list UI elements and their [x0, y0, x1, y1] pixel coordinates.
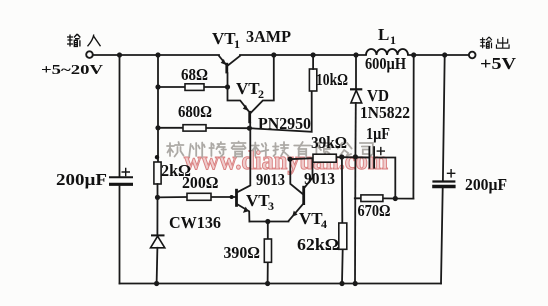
label VT4	[299, 209, 327, 231]
svg-text:10kΩ: 10kΩ	[316, 70, 348, 89]
svg-text:680Ω: 680Ω	[178, 102, 212, 121]
node bottom CW136	[154, 281, 159, 286]
node VT1 base junction	[225, 84, 230, 89]
input terminal	[86, 51, 93, 58]
node emitter bus	[265, 219, 270, 224]
label 680ohm	[178, 102, 212, 121]
node stray on vertical	[155, 155, 159, 159]
svg-text:9013: 9013	[304, 169, 335, 188]
label 600uH	[365, 54, 406, 73]
svg-text:200µF: 200µF	[56, 170, 107, 189]
output terminal	[469, 52, 476, 59]
inductor L1	[356, 49, 414, 55]
node 670 junction	[393, 196, 398, 201]
svg-text:9013: 9013	[256, 170, 285, 189]
node top rail second	[155, 52, 160, 57]
svg-text:390Ω: 390Ω	[224, 243, 261, 262]
label PN2950	[258, 114, 311, 133]
label 1uF	[366, 124, 390, 143]
svg-text:+5V: +5V	[480, 54, 516, 73]
node bottom 62k	[339, 281, 344, 286]
node 10k top	[311, 52, 316, 57]
label 200ohm	[182, 173, 219, 192]
svg-text:68Ω: 68Ω	[181, 65, 208, 84]
transistor VT1	[219, 56, 240, 87]
svg-text:200Ω: 200Ω	[182, 173, 219, 192]
svg-text:39kΩ: 39kΩ	[311, 133, 347, 152]
node VT2 collector rail	[271, 52, 276, 57]
label 68ohm	[181, 65, 208, 84]
svg-text:VT: VT	[299, 209, 323, 228]
svg-text:3: 3	[268, 199, 274, 213]
wire left rail upper	[119, 55, 121, 176]
wire VD line to ground	[354, 157, 356, 284]
label +5~20V	[41, 63, 103, 78]
label 670ohm	[358, 201, 391, 220]
label 9013 second	[304, 169, 335, 188]
node VT2 base junction	[247, 126, 252, 131]
wire bottom rail	[120, 283, 442, 285]
label CW136	[169, 213, 221, 232]
label 200uF right	[465, 175, 507, 194]
svg-text:+5~20V: +5~20V	[41, 63, 103, 78]
capacitor 1uF	[355, 146, 395, 198]
wire emitter bus	[249, 221, 288, 223]
label 3AMP	[246, 27, 291, 46]
label VT3	[246, 191, 274, 213]
svg-text:200µF: 200µF	[465, 175, 507, 194]
diode VD 1N5822	[350, 55, 362, 157]
wire left rail lower	[119, 186, 121, 284]
resistor 200ohm	[158, 193, 236, 200]
wire top rail middle section	[240, 54, 356, 56]
svg-text:1: 1	[234, 37, 240, 51]
svg-text:CW136: CW136	[169, 213, 221, 232]
label +5V	[480, 54, 516, 73]
node bottom VD line	[353, 281, 358, 286]
resistor 68ohm	[158, 84, 228, 91]
label 62k	[297, 235, 339, 254]
node top rail left	[117, 52, 122, 57]
node reference	[155, 195, 160, 200]
label 2k	[161, 161, 191, 180]
svg-text:1N5822: 1N5822	[360, 103, 410, 122]
node VD switch rail	[353, 52, 358, 57]
label 200uF left	[56, 170, 107, 189]
resistor 390ohm	[264, 222, 271, 284]
wire top rail output section	[414, 54, 469, 56]
svg-text:VT: VT	[236, 79, 260, 98]
resistor 670ohm	[355, 195, 414, 202]
node L1 right	[411, 52, 416, 57]
wire output branch vertical	[412, 55, 414, 199]
svg-text:2: 2	[258, 87, 264, 101]
svg-text:670Ω: 670Ω	[358, 201, 391, 220]
wire second vertical upper	[157, 55, 159, 162]
svg-text:1: 1	[390, 33, 396, 47]
svg-text:62kΩ: 62kΩ	[297, 235, 339, 254]
capacitor C1 200uF plates	[109, 168, 133, 185]
wire top rail input section	[93, 54, 219, 56]
node VT4 base junction	[287, 157, 292, 162]
node output cap	[442, 52, 447, 57]
svg-text:1µF: 1µF	[366, 124, 390, 143]
node VD line row	[353, 154, 358, 159]
transistor VT3	[237, 128, 251, 221]
svg-text:4: 4	[321, 217, 327, 231]
node bottom 390	[265, 281, 270, 286]
svg-text:VT: VT	[212, 29, 236, 48]
label VD	[367, 86, 389, 105]
node VT3 base	[230, 195, 234, 199]
svg-text:L: L	[378, 25, 389, 44]
label VT1	[212, 29, 240, 51]
watermark red url	[184, 146, 388, 175]
node 62k top	[339, 154, 344, 159]
label 390ohm	[224, 243, 261, 262]
svg-text:600µH: 600µH	[365, 54, 406, 73]
label input chinese	[67, 34, 101, 47]
svg-text:3AMP: 3AMP	[246, 27, 291, 46]
label 10k	[316, 70, 348, 89]
label 9013 first	[256, 170, 285, 189]
resistor 2k	[154, 162, 161, 197]
resistor 10k	[309, 55, 316, 91]
resistor 62k	[339, 157, 347, 284]
node 68ohm junction	[155, 84, 160, 89]
svg-text:www.dianyuan.com: www.dianyuan.com	[184, 146, 388, 175]
label output chinese	[480, 37, 509, 48]
transistor VT2	[228, 55, 274, 128]
label VT2	[236, 79, 264, 101]
resistor 680ohm	[158, 125, 249, 131]
zener CW136	[151, 197, 165, 283]
watermark gray company text	[167, 142, 373, 158]
label 1N5822	[360, 103, 410, 122]
svg-text:VT: VT	[246, 191, 270, 210]
label L1	[378, 25, 396, 47]
capacitor C2 200uF right	[432, 55, 455, 284]
node 680ohm junction	[155, 125, 160, 130]
wire VT2 base to 10k corner	[249, 91, 311, 132]
resistor 39k	[290, 154, 369, 162]
transistor VT4	[289, 158, 313, 221]
label 39k	[311, 133, 347, 152]
